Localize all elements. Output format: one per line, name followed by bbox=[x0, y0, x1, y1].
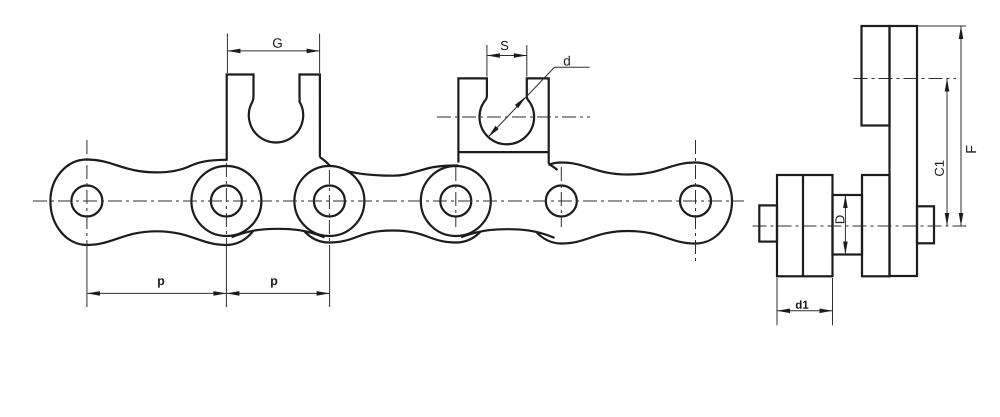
end view lower pin centerline bbox=[753, 225, 967, 227]
chain link plate 5-6 (outer link) bbox=[525, 163, 732, 244]
end view: left pin end stub bbox=[759, 205, 777, 241]
label d bbox=[564, 56, 570, 66]
dimension S extension lines bbox=[487, 45, 527, 77]
pin hole 3 bbox=[314, 186, 345, 217]
dimension S line bbox=[487, 55, 527, 57]
attachment S right wall blend toward roller 5 bbox=[549, 164, 558, 170]
chain link plate 1-2 (outer link) bbox=[50, 160, 263, 246]
pin hole 2 bbox=[211, 186, 242, 217]
end view: left plate divider line bbox=[802, 175, 804, 276]
end view: roller/bushing bbox=[833, 195, 863, 255]
dimension D line bbox=[844, 196, 846, 254]
dimension G extension lines bbox=[227, 34, 319, 73]
dimension d1 line bbox=[777, 310, 833, 312]
dimension G line bbox=[227, 50, 319, 52]
attachment S block bottom bend line bbox=[458, 151, 548, 153]
label p (second pitch) bbox=[271, 278, 277, 287]
pin hole 5 bbox=[546, 186, 577, 217]
end view: inner plate bbox=[862, 175, 890, 276]
end view upper hole centerline bbox=[854, 78, 957, 80]
main horizontal centerline bbox=[33, 200, 744, 202]
dimension C1 line bbox=[946, 79, 948, 227]
roller at pin 3 bbox=[294, 166, 364, 236]
attachment link 2-3 bottom waist edge bbox=[232, 229, 325, 238]
dimension d1 extension lines bbox=[777, 278, 833, 325]
label G bbox=[273, 38, 282, 48]
end view: left plate pair bbox=[777, 175, 833, 276]
attachment G right wall blend into roller 3 bbox=[320, 157, 331, 166]
dimension F top extension line bbox=[917, 25, 966, 27]
vertical centerline pin 3 bbox=[328, 170, 330, 246]
dimension p line (two segments) bbox=[87, 292, 330, 294]
label F (rotated) bbox=[966, 146, 976, 153]
chain link plate 3-4 (back layer) bbox=[293, 166, 492, 243]
end view: tall bent attachment plate bbox=[890, 26, 918, 276]
label d1 bbox=[796, 300, 802, 308]
label S bbox=[501, 41, 508, 50]
end view: attachment plate upper left rectangle bbox=[862, 26, 890, 126]
label p (first pitch) bbox=[158, 278, 164, 287]
dimension d leader and diameter line bbox=[488, 67, 589, 137]
attachment link 4-5 silhouette fill (hides plates behind) bbox=[458, 78, 548, 236]
end view: right pin end stub bbox=[917, 206, 934, 243]
attachment link 4-5 bottom waist edge bbox=[461, 229, 555, 238]
roller at pin 2 bbox=[191, 166, 261, 236]
dimension p extension lines bbox=[87, 246, 330, 307]
vertical centerline pin 2 bbox=[225, 163, 227, 246]
pin hole 1 bbox=[71, 186, 102, 217]
vertical centerline pin 6 bbox=[695, 140, 697, 261]
vertical centerline pin 4 bbox=[455, 167, 457, 227]
vertical centerline pin 5 bbox=[560, 167, 562, 227]
vertical centerline pin 1 bbox=[86, 140, 88, 246]
pin hole 6 bbox=[680, 186, 711, 217]
dimension F line bbox=[960, 26, 962, 226]
centerline through attachment hole d bbox=[437, 116, 590, 118]
attachment link 2-3 silhouette fill (hides plates behind) bbox=[227, 75, 365, 237]
attachment G bent plate outline (U shape with slot and hole) bbox=[227, 75, 320, 161]
pin hole 4 bbox=[440, 186, 471, 217]
roller at pin 4 bbox=[421, 166, 491, 236]
label C1 (rotated) bbox=[935, 168, 944, 176]
label D (rotated) bbox=[835, 215, 844, 223]
attachment S block outline (slot and hole d) bbox=[458, 78, 548, 163]
